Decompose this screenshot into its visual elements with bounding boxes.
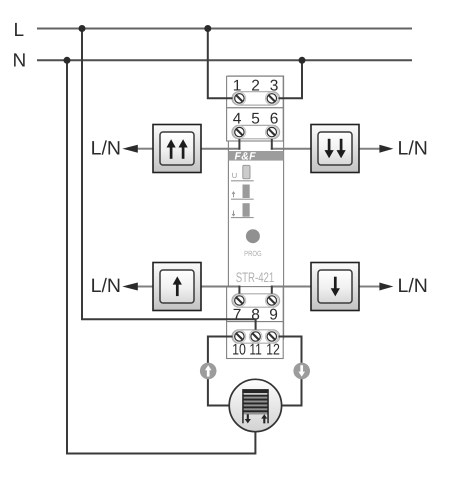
svg-text:10: 10 <box>232 342 246 359</box>
LED up label <box>232 192 235 197</box>
wire button down to terminal 9 <box>271 286 311 288</box>
screw terminal 6 <box>266 126 279 139</box>
device body STR-421 <box>228 76 283 339</box>
wire button down-down to terminal 6 <box>271 148 311 150</box>
PROG button <box>246 229 260 243</box>
screw terminal 7 <box>233 294 246 307</box>
junction L-wire2 <box>204 25 211 32</box>
wire N to terminal 3 <box>272 61 302 99</box>
svg-text:PROG: PROG <box>244 249 262 258</box>
button down (local close) <box>311 263 359 311</box>
LED down underline <box>231 217 254 219</box>
screw terminal 9 <box>266 294 279 307</box>
wire button down to L/N <box>359 286 380 288</box>
screw terminal 4 <box>233 126 246 139</box>
junction N-wire1 <box>64 57 71 64</box>
LED down label <box>232 211 235 216</box>
svg-text:F&F: F&F <box>235 151 257 163</box>
N bus wire <box>37 59 412 61</box>
terminal box 7-8-9 <box>227 287 284 322</box>
svg-text:12: 12 <box>266 342 280 359</box>
screw terminal 1 <box>233 92 246 105</box>
wire button down-down to L/N <box>359 148 380 150</box>
svg-text:STR-421: STR-421 <box>236 270 275 285</box>
LED down indicator <box>243 203 250 217</box>
wire L/N to button up <box>137 286 153 288</box>
terminal well band row 3 <box>232 294 280 307</box>
wire terminal 12 to motor right <box>255 337 301 406</box>
arrow to L/N top-right <box>379 145 393 153</box>
direction up marker <box>200 363 217 380</box>
wire terminal 10 to motor left <box>208 337 256 406</box>
junction N-wire2 <box>299 57 306 64</box>
svg-text:U: U <box>232 171 237 180</box>
terminal well band row 4 <box>232 330 280 343</box>
wire L/N to button up-up <box>137 148 153 150</box>
terminal box 4-5-6 <box>227 108 284 141</box>
wire button up to terminal 7 <box>201 286 240 288</box>
LED U indicator <box>243 165 250 178</box>
terminal well band row 2 <box>232 125 280 138</box>
L bus wire <box>37 28 412 30</box>
button up-up (central open) <box>153 125 201 173</box>
button down-down (central close) <box>311 125 359 173</box>
screw terminal 12 <box>266 330 279 343</box>
svg-text:L/N: L/N <box>398 275 428 297</box>
junction L-wire1 <box>79 25 86 32</box>
screw terminal 11 <box>249 330 262 343</box>
arrow to L/N bottom-right <box>379 283 393 291</box>
wire L to terminal 1 <box>208 29 240 99</box>
button up (local open) <box>153 263 201 311</box>
svg-text:N: N <box>13 51 27 72</box>
terminal box 10-11-12 <box>227 322 284 359</box>
motor M (roller shutter drive) <box>229 379 281 431</box>
svg-text:L/N: L/N <box>91 137 121 159</box>
wire N to motor <box>67 61 255 454</box>
arrow to L/N bottom-left <box>122 283 138 291</box>
terminal well band row 1 <box>232 92 280 105</box>
LED up indicator <box>243 185 250 199</box>
svg-text:11: 11 <box>249 342 262 359</box>
F&F logo bar <box>228 151 283 163</box>
svg-text:L/N: L/N <box>91 275 121 297</box>
direction down marker <box>293 363 310 380</box>
LED up underline <box>231 198 254 200</box>
svg-text:L: L <box>14 20 25 41</box>
LED U underline <box>231 180 254 182</box>
terminal box 1-2-3 <box>227 76 284 108</box>
screw terminal 3 <box>266 92 279 105</box>
wire L to terminal 11 <box>82 29 256 337</box>
wire button up-up to terminal 4 <box>201 148 240 150</box>
svg-text:L/N: L/N <box>398 137 428 159</box>
screw terminal 10 <box>233 330 246 343</box>
arrow to L/N top-left <box>122 145 138 153</box>
